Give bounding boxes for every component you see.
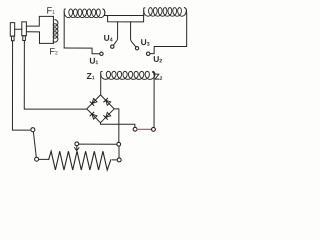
terminal U4 (113, 22, 117, 45)
wire bus line1 (105, 15, 144, 17)
wiper arrow (75, 146, 79, 151)
diode D1 (top-left) (92, 98, 97, 103)
bridge rectifier diamond (87, 95, 114, 123)
switch S1 bottom terminal (35, 157, 39, 161)
terminal U1 wire (64, 48, 99, 54)
wire bus line2 (108, 16, 144, 22)
wiper terminal (75, 142, 79, 146)
plug pin P2 (22, 22, 27, 41)
coil A2 (top right winding) (144, 8, 145, 16)
wire bridge right to link K1 (114, 109, 119, 142)
link K1 bottom terminal (117, 158, 121, 162)
red link wire (137, 128, 151, 130)
wire wiper to K1 (79, 143, 117, 145)
wire plug2 rail to bridge (24, 40, 87, 109)
coil Z (auxiliary winding) (101, 71, 102, 94)
red link right terminal (152, 127, 156, 131)
coil F (field winding) (52, 16, 54, 43)
wire right coil to U2 (150, 14, 186, 54)
wire bridge bottom to red link (100, 123, 134, 128)
red link left terminal (133, 127, 137, 131)
link K1 top terminal (117, 142, 121, 146)
terminal U2 (146, 52, 150, 56)
wire plug bar (15, 28, 22, 30)
terminal U3 (131, 22, 136, 47)
diode D2 (top-right) (106, 100, 111, 105)
coil A1 (top middle winding) (64, 9, 65, 48)
switch S1 blade (33, 132, 36, 158)
wire plug1 rail to switch (12, 41, 31, 130)
link K1 connector (118, 146, 120, 158)
diode D3 (bottom-left) (92, 114, 97, 119)
plug pin P1 (10, 23, 14, 41)
wire K1 to resistor end (112, 159, 117, 161)
wire plug2 to F2 (26, 32, 53, 44)
diode D4 (bottom-right) (106, 112, 111, 117)
wire plug2 to F1 (26, 16, 53, 26)
resistor lead left (39, 158, 49, 160)
switch S1 top terminal (31, 128, 35, 132)
resistor R (starting rheostat) (49, 151, 111, 170)
